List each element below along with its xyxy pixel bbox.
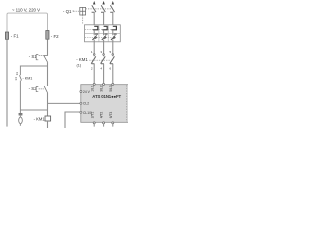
svg-text:ATS 01N1●●FT: ATS 01N1●●FT (92, 94, 121, 99)
svg-text:- Q1: - Q1 (63, 9, 72, 14)
svg-text:- KM1: - KM1 (23, 77, 33, 81)
linkage dashes (86, 8, 112, 10)
svg-text:- F2: - F2 (51, 34, 59, 39)
thermal trip 3 (111, 34, 117, 40)
terminal 24V (80, 91, 82, 93)
wire supply top bracket (7, 13, 48, 32)
terminal 3/L2 (103, 83, 105, 85)
wire bottom horizontal (20, 109, 47, 111)
wire aux branch down (19, 81, 21, 114)
trip linkage dashes (85, 29, 113, 37)
svg-text:- KM1: - KM1 (34, 116, 46, 121)
pushbutton S1 actuator (36, 55, 38, 60)
terminal 6/T3 (109, 112, 113, 119)
wire right rail F2 to S1 (47, 39, 49, 55)
terminal CL1/0 (80, 111, 82, 113)
svg-text:24 V: 24 V (83, 90, 91, 94)
svg-text:14: 14 (14, 77, 18, 81)
svg-text:5/L3: 5/L3 (109, 85, 113, 91)
component block on aux line (19, 113, 23, 116)
thermal trip 2 (102, 34, 108, 40)
contact KM1 aux NO (20, 75, 22, 80)
wire phase drops to trip box (94, 12, 113, 26)
pushbutton S1 NC contact (44, 56, 48, 63)
svg-text:1/L1: 1/L1 (90, 85, 94, 91)
ATS box (81, 85, 129, 123)
dashed drop to trip unit (82, 15, 84, 25)
svg-text:- F1: - F1 (11, 34, 19, 39)
wire block to oval (19, 116, 21, 118)
terminal 5/L3 (112, 83, 114, 85)
wire phases below trip box (94, 40, 113, 57)
svg-text:6/T3: 6/T3 (109, 112, 113, 119)
thermal flag 2 (104, 37, 106, 39)
pushbutton S1 link dashes (39, 55, 44, 57)
contactor KM1 linkage dashes (89, 59, 111, 61)
wire CL2 tap (48, 102, 81, 104)
phase L2 arrow (102, 1, 104, 5)
phase L3 arrow (112, 1, 114, 5)
terminal 4/T2 (100, 112, 104, 119)
svg-text:~ 110 V, 220 V: ~ 110 V, 220 V (12, 8, 40, 13)
wire left rail (6, 39, 8, 126)
contactor pole 1 (91, 56, 96, 64)
wire inner segments (94, 30, 113, 35)
component block stripes (19, 114, 23, 115)
wire CL1/0 (65, 112, 80, 128)
terminal 2/T1 (90, 112, 94, 119)
breaker pole 3 (110, 5, 114, 12)
thermal flag 1 (95, 37, 97, 39)
fuse F2 (46, 31, 49, 40)
lamp oval (19, 117, 23, 124)
svg-text:4/T2: 4/T2 (100, 112, 104, 119)
breaker pole 1 (92, 5, 96, 12)
pushbutton S2 actuator (36, 87, 38, 92)
magnetic trip 3 (112, 26, 117, 30)
trip unit box grid (85, 25, 121, 42)
svg-text:(1): (1) (77, 63, 82, 67)
wire S1 to S2 (47, 62, 49, 86)
pin 14 (14, 77, 18, 81)
svg-text:- KM1: - KM1 (76, 57, 88, 62)
wire below oval (19, 124, 21, 126)
pushbutton S2 NO contact (44, 86, 47, 93)
terminal 1/L1 (93, 83, 95, 85)
terminal CL2 (80, 102, 82, 104)
wire motor stubs (94, 124, 113, 127)
wire branch top (20, 66, 47, 75)
coil KM1 (45, 116, 51, 121)
wire coil bottom (47, 121, 49, 128)
magnetic trip 2 (102, 26, 107, 30)
thermal flag 3 (113, 37, 115, 39)
wire S2 down to coil (47, 93, 49, 116)
svg-text:3/L2: 3/L2 (100, 85, 104, 91)
svg-text:13: 13 (15, 72, 19, 76)
pin 13 (15, 72, 19, 76)
svg-text:2/T1: 2/T1 (90, 112, 94, 119)
breaker Q1 mechanism box (80, 7, 86, 15)
contactor pole 2 (101, 56, 106, 64)
trip unit box (85, 25, 121, 42)
phase L1 arrow (93, 1, 95, 5)
magnetic trip 1 (93, 26, 98, 30)
dashed continuation line (126, 85, 128, 122)
svg-text:CL2: CL2 (83, 102, 89, 106)
contactor pole 3 (110, 56, 115, 64)
fuse F1 (5, 32, 8, 39)
pushbutton S2 link dashes (39, 88, 44, 90)
breaker Q1 link dashes (73, 10, 79, 12)
wire phases to ATS (94, 64, 113, 84)
thermal trip 1 (92, 34, 98, 40)
breaker pole 2 (101, 5, 105, 12)
